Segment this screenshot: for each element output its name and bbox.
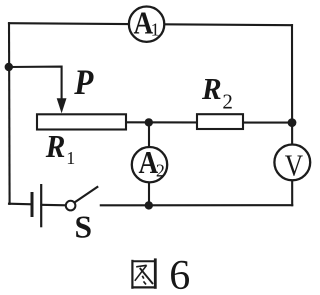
switch lever	[75, 186, 99, 202]
ammeter A1	[129, 6, 164, 41]
caption character tu (figure)	[131, 258, 156, 288]
svg-text:2: 2	[156, 160, 165, 180]
wire battery to switch	[41, 204, 66, 207]
node right junction	[288, 118, 297, 127]
svg-text:2: 2	[222, 90, 233, 114]
battery long plate	[40, 184, 42, 227]
rheostat R1 body	[37, 114, 126, 129]
svg-text:P: P	[73, 63, 93, 102]
wire ammeter A2 branch vertical	[148, 122, 150, 205]
svg-text:6: 6	[169, 253, 190, 295]
wire left vertical	[8, 23, 11, 204]
wire bottom horizontal switch to right	[101, 204, 292, 206]
wire middle horizontal R1 to R2 to right node	[126, 121, 292, 123]
svg-text:V: V	[285, 149, 304, 183]
wire bottom left corner to battery	[9, 203, 32, 206]
wire right vertical	[291, 25, 293, 205]
ammeter A2	[132, 146, 167, 183]
svg-text:1: 1	[66, 148, 75, 168]
label R2	[201, 71, 233, 113]
resistor R2 body	[197, 114, 243, 129]
svg-text:R: R	[201, 71, 222, 106]
node left junction	[5, 63, 13, 71]
label R1	[45, 129, 75, 168]
node middle junction	[145, 118, 153, 126]
battery short plate	[31, 192, 34, 217]
voltmeter V	[274, 145, 310, 184]
wire top horizontal	[9, 23, 292, 25]
node bottom junction	[145, 201, 153, 209]
svg-text:1: 1	[151, 20, 160, 40]
wire branch from left node to slider	[9, 67, 62, 102]
svg-text:S: S	[75, 210, 93, 245]
switch pivot	[66, 201, 76, 211]
svg-text:R: R	[45, 129, 66, 164]
slider arrow tip P	[57, 98, 67, 113]
